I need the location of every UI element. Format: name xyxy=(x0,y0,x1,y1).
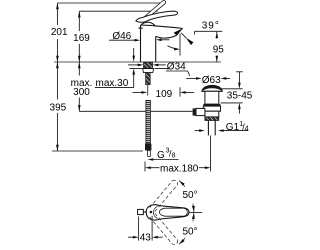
svg-text:43: 43 xyxy=(140,232,152,243)
dimension Ø63 xyxy=(186,77,230,80)
svg-text:Ø63: Ø63 xyxy=(202,75,221,86)
popup waste lower body xyxy=(205,111,219,117)
dimension 201 vertical line xyxy=(56,3,59,62)
svg-text:8: 8 xyxy=(172,153,176,160)
svg-text:39°: 39° xyxy=(202,20,220,31)
faucet flexible supply hose xyxy=(146,100,151,143)
dimension 169 vertical line xyxy=(78,11,81,62)
faucet spout top xyxy=(152,26,182,29)
svg-text:109: 109 xyxy=(156,89,173,100)
dimension 50 degree arc xyxy=(179,181,202,245)
popup waste flange dome xyxy=(202,85,222,91)
svg-text:300: 300 xyxy=(73,87,90,98)
handle top view inner blade xyxy=(159,208,187,216)
popup waste side outlet xyxy=(193,108,205,115)
svg-text:G: G xyxy=(157,150,165,161)
wire hose connection level line max300 xyxy=(79,110,145,112)
dimension 43 xyxy=(128,216,163,241)
wire tailpipe centre extension xyxy=(210,135,212,171)
faucet lever handle xyxy=(136,11,178,22)
handle top view body xyxy=(146,205,189,220)
dimension 39 degree annotation xyxy=(167,31,222,50)
svg-text:50°: 50° xyxy=(182,227,197,238)
faucet body column xyxy=(138,25,155,62)
popup waste neck xyxy=(205,91,219,104)
countertop deck line xyxy=(54,61,221,63)
label G3/8 leader xyxy=(148,158,179,161)
popup waste lock nut xyxy=(203,104,220,111)
svg-text:4: 4 xyxy=(245,125,249,132)
faucet pull rod lower xyxy=(147,85,149,96)
handle pivot dot xyxy=(150,211,153,214)
dimension max.180 xyxy=(145,162,211,172)
svg-text:35-45: 35-45 xyxy=(227,91,253,102)
svg-text:Ø46: Ø46 xyxy=(112,31,131,42)
popup waste thread band hatched xyxy=(205,117,219,121)
handle dashed swing lower xyxy=(150,213,178,244)
dimension Ø46 leader xyxy=(109,39,170,42)
svg-text:max.30: max.30 xyxy=(96,78,129,89)
deck bottom line xyxy=(129,68,143,70)
svg-text:95: 95 xyxy=(213,44,225,55)
handle dashed swing upper xyxy=(150,180,178,211)
dimension 95 vertical line xyxy=(216,32,219,62)
handle top view nub xyxy=(138,209,147,214)
wire bottom hose level line 395 xyxy=(52,150,143,152)
wire extension line top 201 xyxy=(57,2,165,4)
faucet spout outlet face xyxy=(174,28,184,35)
dimension G1 1/4 leader xyxy=(195,129,248,132)
handle top view cap arc xyxy=(154,206,158,218)
faucet threaded stud hatched xyxy=(146,73,151,85)
dimension max.30 arrows xyxy=(95,48,135,88)
dimension Ø34 arrows and leader xyxy=(128,64,190,76)
svg-text:50°: 50° xyxy=(182,190,197,201)
dimension max.300 vertical line xyxy=(78,62,81,111)
faucet mounting shank hatched xyxy=(144,62,153,68)
wire extension line top 169 xyxy=(79,10,157,12)
faucet cartridge dome xyxy=(141,22,155,26)
svg-text:max.180: max.180 xyxy=(160,163,199,174)
faucet lever raised position xyxy=(142,1,166,20)
hose connector tube xyxy=(148,150,151,156)
svg-text:G1: G1 xyxy=(226,122,240,133)
hose connector nut G3/8 xyxy=(145,144,151,151)
dimension 109 xyxy=(133,87,195,96)
svg-text:169: 169 xyxy=(73,33,90,44)
faucet mounting nut xyxy=(143,69,154,73)
dimension 35-45 xyxy=(221,72,243,114)
dimension 395 vertical line xyxy=(56,62,59,151)
svg-text:201: 201 xyxy=(51,27,68,38)
faucet spout underside xyxy=(156,35,177,38)
svg-text:Ø34: Ø34 xyxy=(167,62,186,73)
popup waste tailpipe xyxy=(208,121,215,136)
svg-text:395: 395 xyxy=(50,103,67,114)
node spout tip vertical reference xyxy=(179,34,181,56)
